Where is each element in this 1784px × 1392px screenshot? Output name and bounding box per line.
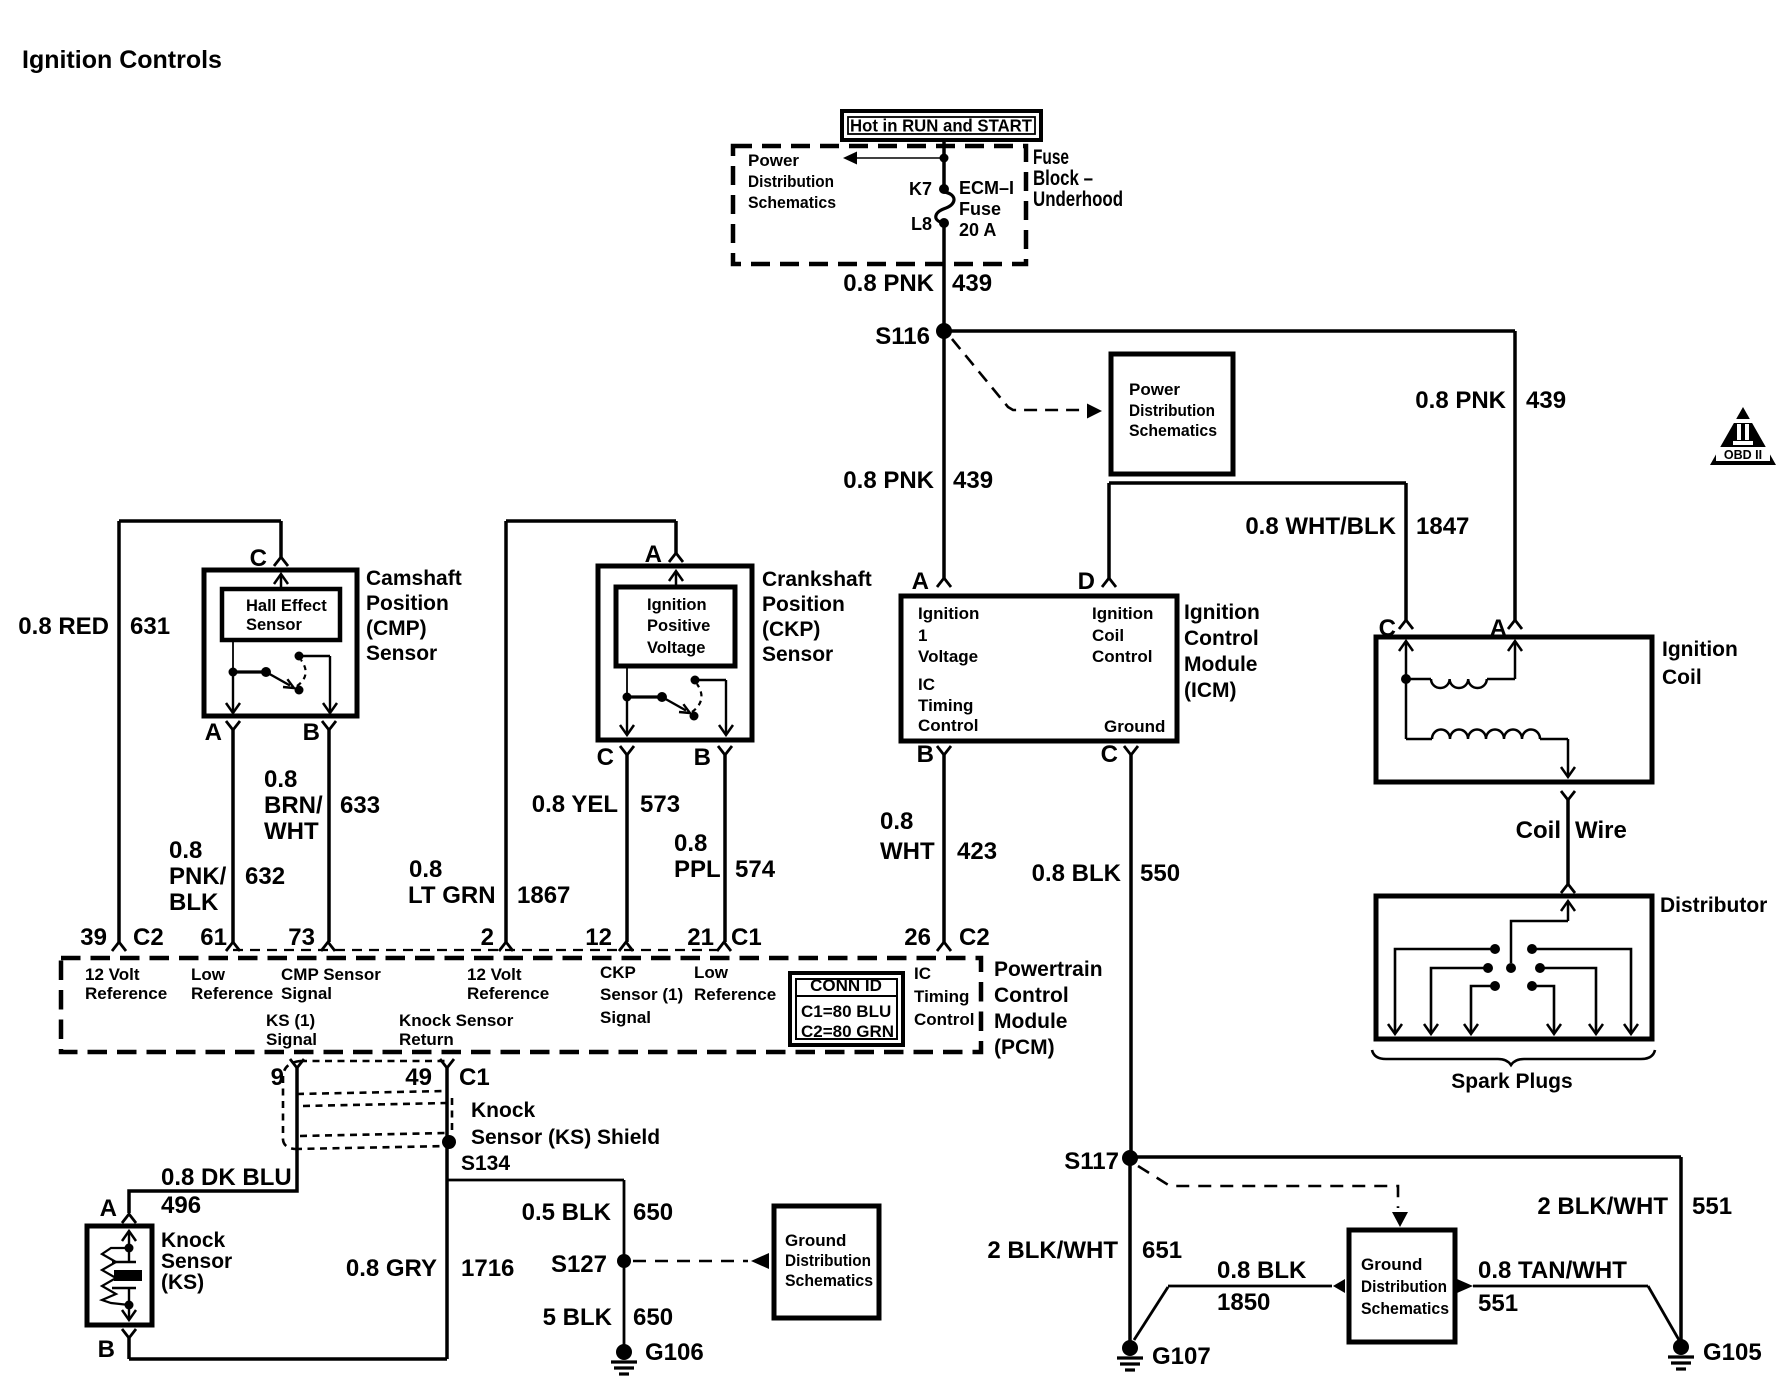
svg-text:Sensor: Sensor xyxy=(366,642,437,665)
KS bottom node dot xyxy=(125,1301,134,1310)
KS piezo element xyxy=(128,1248,130,1262)
PCM connector dashed line xyxy=(233,949,724,951)
svg-text:0.8: 0.8 xyxy=(264,766,297,793)
svg-text:Low: Low xyxy=(694,963,729,982)
svg-text:20 A: 20 A xyxy=(959,220,996,240)
svg-text:Module: Module xyxy=(994,1010,1068,1033)
svg-text:Sensor: Sensor xyxy=(246,616,303,634)
svg-text:Fuse: Fuse xyxy=(1033,146,1069,169)
wire: S117 to G105 (2 BLK/WHT 551) xyxy=(1130,1155,1681,1159)
svg-text:L8: L8 xyxy=(911,214,932,234)
wire: S116 down to ICM pin A xyxy=(942,331,946,578)
svg-text:IC: IC xyxy=(914,964,931,983)
svg-text:K7: K7 xyxy=(909,179,932,199)
svg-text:573: 573 xyxy=(640,791,680,818)
CKP switch output lead xyxy=(695,679,726,681)
reference box: Ground Distribution Schematics (S127) xyxy=(774,1206,879,1318)
svg-text:CKP: CKP xyxy=(600,963,636,982)
KS internal arrow up xyxy=(122,1231,136,1241)
CKP switch pivot dots xyxy=(623,693,632,702)
svg-text:1716: 1716 xyxy=(461,1255,514,1282)
svg-text:632: 632 xyxy=(245,863,285,890)
fuse block dashed outline (Fuse Block - Underhood) xyxy=(733,146,1026,264)
splice S117 xyxy=(1122,1150,1138,1166)
svg-text:Knock: Knock xyxy=(161,1229,226,1252)
svg-text:C2: C2 xyxy=(959,924,990,951)
svg-text:S127: S127 xyxy=(551,1251,607,1278)
svg-text:0.8 PNK: 0.8 PNK xyxy=(1415,387,1506,414)
svg-text:WHT: WHT xyxy=(264,818,319,845)
svg-text:0.8 TAN/WHT: 0.8 TAN/WHT xyxy=(1478,1257,1627,1284)
svg-text:WHT: WHT xyxy=(880,838,935,865)
svg-text:Fuse: Fuse xyxy=(959,199,1001,219)
svg-text:Reference: Reference xyxy=(467,984,549,1003)
distributor input pin xyxy=(1561,884,1575,893)
wire: fuse to S116 xyxy=(942,223,946,331)
svg-text:0.8 BLK: 0.8 BLK xyxy=(1032,860,1122,887)
svg-text:Ignition Controls: Ignition Controls xyxy=(22,46,222,74)
svg-text:A: A xyxy=(1490,615,1507,642)
svg-text:1847: 1847 xyxy=(1416,513,1469,540)
svg-text:0.8 RED: 0.8 RED xyxy=(18,613,109,640)
svg-text:G107: G107 xyxy=(1152,1343,1211,1370)
svg-text:Schematics: Schematics xyxy=(748,193,836,212)
svg-text:C2=80 GRN: C2=80 GRN xyxy=(801,1022,894,1041)
svg-text:Control: Control xyxy=(1184,627,1259,650)
svg-text:5 BLK: 5 BLK xyxy=(543,1304,613,1331)
CKP switch dashed arc xyxy=(692,684,701,712)
ground G105 xyxy=(1673,1339,1689,1355)
svg-text:73: 73 xyxy=(288,924,315,951)
svg-text:651: 651 xyxy=(1142,1237,1182,1264)
svg-text:Distribution: Distribution xyxy=(785,1251,871,1270)
svg-text:C1: C1 xyxy=(459,1064,490,1091)
svg-text:Knock Sensor: Knock Sensor xyxy=(399,1011,514,1030)
spark plugs brace xyxy=(1372,1050,1655,1065)
wire: S134 drain to S127/G106 xyxy=(448,1179,624,1182)
ground G106 xyxy=(616,1344,632,1360)
svg-text:Control: Control xyxy=(1092,647,1152,666)
svg-text:0.8: 0.8 xyxy=(169,837,202,864)
svg-text:1850: 1850 xyxy=(1217,1289,1270,1316)
svg-text:S116: S116 xyxy=(875,323,930,350)
svg-text:Knock: Knock xyxy=(471,1099,536,1122)
fuse ECM-I 20A element xyxy=(936,192,954,223)
KS resistor zigzag xyxy=(102,1248,129,1305)
svg-text:C: C xyxy=(597,744,614,771)
svg-text:Position: Position xyxy=(762,593,845,616)
svg-text:B: B xyxy=(303,719,320,746)
svg-text:Timing: Timing xyxy=(918,696,973,715)
wire: PCM 2 to CKP A (0.8 LT GRN 1867) xyxy=(504,521,508,942)
svg-text:0.8 GRY: 0.8 GRY xyxy=(346,1255,437,1282)
svg-text:Sensor (1): Sensor (1) xyxy=(600,985,683,1004)
svg-text:Schematics: Schematics xyxy=(785,1271,873,1290)
svg-text:(PCM): (PCM) xyxy=(994,1036,1055,1059)
svg-text:26: 26 xyxy=(904,924,931,951)
ground G107 xyxy=(1122,1340,1138,1356)
power label box: Hot in RUN and START xyxy=(842,111,1041,140)
svg-text:Signal: Signal xyxy=(600,1008,651,1027)
svg-text:Powertrain: Powertrain xyxy=(994,958,1103,981)
KS top node dot xyxy=(125,1244,134,1253)
svg-text:Ignition: Ignition xyxy=(1184,601,1260,624)
svg-text:12 Volt: 12 Volt xyxy=(85,965,140,984)
svg-text:Ground: Ground xyxy=(785,1231,846,1250)
dashed reference from S127 xyxy=(633,1260,748,1263)
splice S134 on shield xyxy=(442,1135,456,1149)
svg-text:631: 631 xyxy=(130,613,170,640)
distributor rotor feed xyxy=(1511,921,1568,963)
CKP internal arrow up xyxy=(669,571,683,581)
svg-text:(CKP): (CKP) xyxy=(762,618,820,641)
splice S127 xyxy=(617,1254,631,1268)
svg-text:Camshaft: Camshaft xyxy=(366,567,462,590)
svg-text:Crankshaft: Crankshaft xyxy=(762,568,872,591)
wire: CMP B to PCM 73 xyxy=(327,730,331,942)
svg-text:Hot in RUN and START: Hot in RUN and START xyxy=(850,116,1032,136)
svg-text:2: 2 xyxy=(481,924,494,951)
svg-text:S134: S134 xyxy=(461,1152,510,1175)
svg-text:A: A xyxy=(912,568,929,595)
arrowhead from ground distribution box (right) xyxy=(1457,1279,1473,1293)
svg-text:Voltage: Voltage xyxy=(647,639,705,657)
arrow to power distribution schematics (left) xyxy=(856,157,944,159)
CKP sensor box outline xyxy=(598,566,752,740)
svg-text:G106: G106 xyxy=(645,1339,704,1366)
svg-text:Reference: Reference xyxy=(694,985,776,1004)
svg-text:Schematics: Schematics xyxy=(1361,1299,1449,1318)
svg-text:B: B xyxy=(694,744,711,771)
CMP inner box: Hall Effect Sensor xyxy=(222,589,340,640)
junction node at fuse feed xyxy=(940,154,949,163)
svg-text:Ignition: Ignition xyxy=(1662,638,1738,661)
distributor input arrow xyxy=(1561,901,1575,911)
svg-text:1: 1 xyxy=(918,626,927,645)
svg-text:0.5 BLK: 0.5 BLK xyxy=(522,1199,612,1226)
splice S116 xyxy=(936,323,952,339)
svg-text:0.8 BLK: 0.8 BLK xyxy=(1217,1257,1307,1284)
wire: CMP A to PCM 61 xyxy=(231,730,235,942)
svg-text:Signal: Signal xyxy=(281,984,332,1003)
svg-text:1867: 1867 xyxy=(517,882,570,909)
distributor box outline xyxy=(1376,896,1652,1039)
svg-text:G105: G105 xyxy=(1703,1339,1762,1366)
svg-text:Distribution: Distribution xyxy=(1361,1277,1447,1296)
svg-text:Spark Plugs: Spark Plugs xyxy=(1451,1070,1572,1093)
svg-text:Sensor (KS) Shield: Sensor (KS) Shield xyxy=(471,1126,660,1149)
CKP switch left lead xyxy=(626,701,628,734)
plug wire 1 xyxy=(1395,949,1495,1033)
coil primary tap dot xyxy=(1401,674,1411,684)
svg-text:C2: C2 xyxy=(133,924,164,951)
coil wire to distributor xyxy=(1566,800,1570,884)
CMP switch contact dots xyxy=(295,686,304,695)
svg-text:Power: Power xyxy=(748,151,799,170)
svg-text:39: 39 xyxy=(80,924,107,951)
OBD II badge xyxy=(1710,407,1776,465)
arrowhead into power distribution box xyxy=(1087,404,1102,419)
svg-text:Return: Return xyxy=(399,1030,454,1049)
svg-text:C: C xyxy=(1101,741,1118,768)
plug wire 5 xyxy=(1540,968,1596,1033)
svg-text:Power: Power xyxy=(1129,380,1180,399)
svg-text:Ground: Ground xyxy=(1104,717,1165,736)
reference box: Ground Distribution Schematics (G107/G105) xyxy=(1349,1230,1455,1342)
plug wire 4 xyxy=(1532,986,1554,1033)
svg-text:Reference: Reference xyxy=(85,984,167,1003)
svg-text:Control: Control xyxy=(914,1010,974,1029)
reference box: Power Distribution Schematics xyxy=(1111,354,1233,474)
svg-text:BLK: BLK xyxy=(169,889,219,916)
svg-text:(CMP): (CMP) xyxy=(366,617,427,640)
svg-text:0.8: 0.8 xyxy=(674,830,707,857)
coil C internal wire xyxy=(1405,641,1408,739)
PCM dashed box outline xyxy=(61,958,981,1052)
svg-text:0.8: 0.8 xyxy=(880,808,913,835)
CMP switch pivot dots xyxy=(229,668,238,677)
svg-text:Wire: Wire xyxy=(1575,817,1627,844)
svg-text:LT GRN: LT GRN xyxy=(408,882,496,909)
svg-text:574: 574 xyxy=(735,856,776,883)
svg-text:PPL: PPL xyxy=(674,856,721,883)
svg-text:Block –: Block – xyxy=(1033,167,1093,190)
svg-text:A: A xyxy=(205,719,222,746)
svg-text:Coil: Coil xyxy=(1662,666,1702,689)
svg-text:Coil: Coil xyxy=(1516,817,1561,844)
svg-text:B: B xyxy=(98,1336,115,1363)
svg-text:Distribution: Distribution xyxy=(1129,401,1215,420)
svg-text:ECM–I: ECM–I xyxy=(959,178,1014,198)
coil internal arrows xyxy=(1399,641,1413,651)
svg-text:OBD II: OBD II xyxy=(1724,448,1762,462)
wire: ground distribution box to G105 (0.8 TAN/WHT 551) xyxy=(1473,1285,1648,1288)
svg-text:496: 496 xyxy=(161,1192,201,1219)
svg-text:IC: IC xyxy=(918,675,935,694)
svg-text:Low: Low xyxy=(191,965,226,984)
CMP switch left lead xyxy=(232,676,234,712)
svg-text:CMP Sensor: CMP Sensor xyxy=(281,965,381,984)
svg-text:0.8 DK BLU: 0.8 DK BLU xyxy=(161,1164,292,1191)
wire: PCM 9 to knock sensor A xyxy=(129,1068,297,1213)
wire: PCM 49 down to knock sensor return xyxy=(445,1068,449,1359)
svg-text:Position: Position xyxy=(366,592,449,615)
svg-text:61: 61 xyxy=(200,924,227,951)
svg-text:439: 439 xyxy=(953,467,993,494)
arrowhead to ground distribution box xyxy=(751,1253,769,1269)
knock sensor box outline xyxy=(87,1226,152,1325)
svg-text:Underhood: Underhood xyxy=(1033,188,1123,211)
CKP switch arm xyxy=(662,697,686,711)
coil tower pin xyxy=(1561,791,1575,800)
svg-text:Sensor: Sensor xyxy=(762,643,833,666)
svg-text:Ground: Ground xyxy=(1361,1255,1422,1274)
svg-text:Sensor: Sensor xyxy=(161,1250,232,1273)
wire: CKP B to PCM 21 xyxy=(723,755,727,942)
svg-text:423: 423 xyxy=(957,838,997,865)
wire: ICM C to S117 xyxy=(1129,755,1133,1158)
svg-text:650: 650 xyxy=(633,1304,673,1331)
svg-text:Ignition: Ignition xyxy=(918,604,979,623)
wire: S117 down to G107 xyxy=(1128,1158,1132,1348)
CMP switch output lead xyxy=(299,655,330,657)
wire: hot feed down into fuse block xyxy=(942,138,946,189)
svg-text:Coil: Coil xyxy=(1092,626,1124,645)
CMP sensor box outline xyxy=(204,570,357,716)
svg-text:Positive: Positive xyxy=(647,617,710,635)
svg-text:633: 633 xyxy=(340,792,380,819)
svg-text:0.8 WHT/BLK: 0.8 WHT/BLK xyxy=(1245,513,1396,540)
wire: G107 to ground distribution box (0.8 BLK 1850) xyxy=(1134,1287,1168,1340)
CMP switch pivot lead xyxy=(232,640,234,668)
svg-text:551: 551 xyxy=(1692,1193,1732,1220)
svg-text:PNK/: PNK/ xyxy=(169,863,227,890)
CKP inner box: Ignition Positive Voltage xyxy=(616,587,735,666)
cap contact dots xyxy=(1490,944,1500,954)
wire: knock sensor B return xyxy=(127,1338,131,1359)
coil A internal wire xyxy=(1514,641,1517,679)
svg-text:2 BLK/WHT: 2 BLK/WHT xyxy=(1537,1193,1668,1220)
svg-text:KS (1): KS (1) xyxy=(266,1011,315,1030)
dashed reference from S117 xyxy=(1138,1166,1398,1208)
svg-text:Ignition: Ignition xyxy=(647,596,707,614)
svg-text:2 BLK/WHT: 2 BLK/WHT xyxy=(987,1237,1118,1264)
svg-text:S117: S117 xyxy=(1064,1148,1119,1175)
svg-text:Control: Control xyxy=(918,716,978,735)
svg-text:Distributor: Distributor xyxy=(1660,894,1767,917)
svg-text:(ICM): (ICM) xyxy=(1184,679,1236,702)
wire: ICM B to PCM 26 xyxy=(942,755,946,942)
svg-text:Reference: Reference xyxy=(191,984,273,1003)
CKP switch contact dots xyxy=(690,712,699,721)
CMP internal arrow up xyxy=(274,574,288,584)
coil primary winding xyxy=(1406,678,1431,681)
KS internal arrow down xyxy=(128,1305,130,1319)
svg-text:C1=80 BLU: C1=80 BLU xyxy=(801,1002,891,1021)
svg-text:A: A xyxy=(100,1195,117,1222)
svg-text:Signal: Signal xyxy=(266,1030,317,1049)
svg-text:Control: Control xyxy=(994,984,1069,1007)
plug wire 6 xyxy=(1532,949,1631,1033)
wire: CKP C to PCM 12 xyxy=(625,755,629,942)
arrowhead down to ground distribution box xyxy=(1392,1212,1408,1227)
svg-text:12: 12 xyxy=(585,924,612,951)
ICM box outline xyxy=(901,596,1177,741)
wire: ICM D to ignition coil C xyxy=(1107,483,1111,578)
svg-text:D: D xyxy=(1078,568,1095,595)
svg-text:650: 650 xyxy=(633,1199,673,1226)
svg-text:Ignition: Ignition xyxy=(1092,604,1153,623)
svg-text:C1: C1 xyxy=(731,924,762,951)
svg-text:550: 550 xyxy=(1140,860,1180,887)
svg-text:0.8: 0.8 xyxy=(409,856,442,883)
svg-text:(KS): (KS) xyxy=(161,1271,204,1294)
svg-text:Schematics: Schematics xyxy=(1129,421,1217,440)
svg-text:21: 21 xyxy=(687,924,714,951)
svg-text:BRN/: BRN/ xyxy=(264,792,323,819)
svg-text:Module: Module xyxy=(1184,653,1258,676)
wire: S116 to ignition coil A xyxy=(944,329,1515,333)
arrowhead at ground distribution box (left) xyxy=(1333,1279,1345,1293)
svg-text:551: 551 xyxy=(1478,1290,1518,1317)
coil secondary winding xyxy=(1406,738,1432,741)
svg-text:0.8 YEL: 0.8 YEL xyxy=(532,791,618,818)
KS shield dashed drawing xyxy=(300,1060,445,1063)
CMP switch dashed arc xyxy=(297,660,306,686)
rotor center dot xyxy=(1506,963,1516,973)
svg-text:CONN ID: CONN ID xyxy=(810,976,882,995)
plug wire 2 xyxy=(1431,968,1488,1033)
CMP switch arm xyxy=(266,672,290,686)
svg-text:439: 439 xyxy=(952,270,992,297)
wire: PCM 39 to CMP C (0.8 RED 631) xyxy=(117,521,121,942)
svg-text:Voltage: Voltage xyxy=(918,647,978,666)
svg-text:B: B xyxy=(917,741,934,768)
svg-text:12 Volt: 12 Volt xyxy=(467,965,522,984)
ignition coil box outline xyxy=(1376,637,1652,782)
dashed reference from S116 xyxy=(952,339,1086,410)
svg-text:C: C xyxy=(1379,615,1396,642)
PCM CONN ID table xyxy=(790,973,903,1045)
svg-text:439: 439 xyxy=(1526,387,1566,414)
fuse terminal L8 dot xyxy=(939,218,949,228)
svg-text:49: 49 xyxy=(405,1064,432,1091)
fuse F_ECM-I terminal K7 dot xyxy=(939,184,949,194)
svg-text:Distribution: Distribution xyxy=(748,172,834,191)
CKP switch pivot lead xyxy=(626,666,628,693)
svg-text:Hall Effect: Hall Effect xyxy=(246,597,327,615)
svg-text:Timing: Timing xyxy=(914,987,969,1006)
svg-text:0.8 PNK: 0.8 PNK xyxy=(843,467,934,494)
svg-text:0.8 PNK: 0.8 PNK xyxy=(843,270,934,297)
plug wire 3 xyxy=(1471,986,1495,1033)
